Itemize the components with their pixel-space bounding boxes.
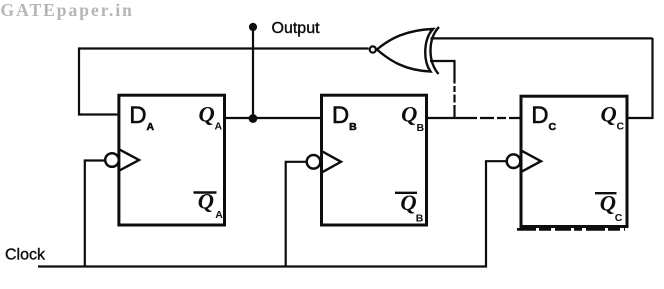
svg-text:Q: Q [601,101,617,126]
svg-text:B: B [416,213,424,225]
svg-text:D: D [332,102,349,129]
svg-text:A: A [147,121,155,133]
svg-text:B: B [349,121,357,133]
svg-text:B: B [417,122,425,134]
svg-text:C: C [617,120,625,132]
svg-text:A: A [215,120,223,132]
svg-text:Output: Output [272,20,321,37]
svg-text:A: A [215,209,223,221]
svg-text:Clock: Clock [5,247,46,264]
svg-text:Q: Q [199,101,215,126]
svg-text:D: D [129,102,146,129]
svg-text:C: C [615,212,623,224]
svg-text:D: D [531,102,548,129]
svg-text:GATEpaper.in: GATEpaper.in [1,0,134,20]
svg-text:C: C [549,121,557,133]
svg-text:Q: Q [401,101,417,126]
